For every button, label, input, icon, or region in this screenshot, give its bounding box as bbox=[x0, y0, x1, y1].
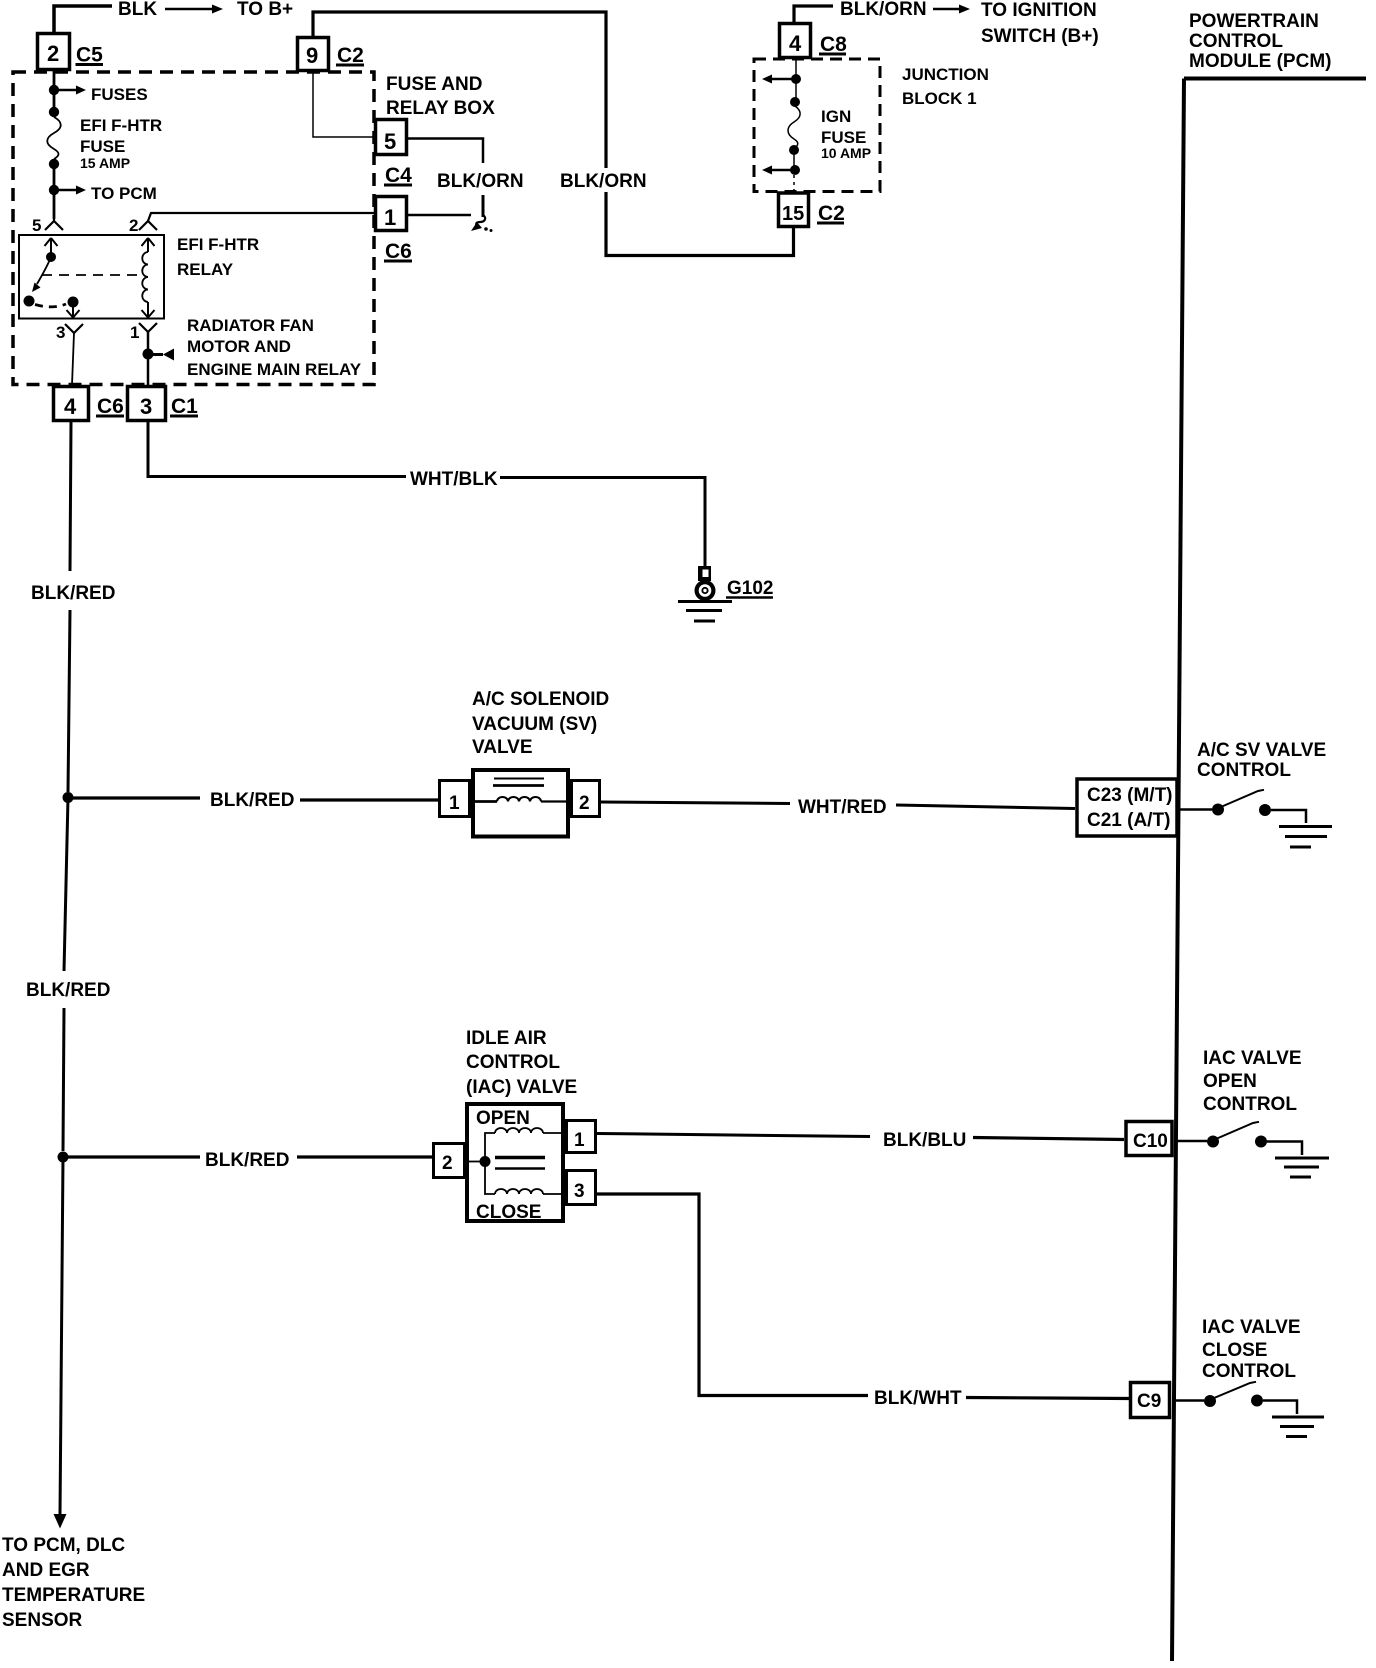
svg-text:MOTOR AND: MOTOR AND bbox=[187, 337, 291, 356]
relay coil down arrow bbox=[142, 302, 155, 318]
svg-text:10 AMP: 10 AMP bbox=[821, 145, 871, 161]
svg-text:IAC VALVE: IAC VALVE bbox=[1203, 1048, 1302, 1069]
svg-text:FUSES: FUSES bbox=[91, 85, 148, 104]
svg-text:POWERTRAIN: POWERTRAIN bbox=[1189, 11, 1319, 32]
connector C6 pin 1 box bbox=[376, 197, 407, 231]
svg-text:WHT/BLK: WHT/BLK bbox=[410, 469, 498, 490]
IAC close coil branch bbox=[485, 1162, 566, 1195]
wire relay pin 2 to connector C6 pin 1 bbox=[148, 213, 374, 221]
ground G102 bolt terminal bbox=[698, 566, 711, 581]
wire BLK/RED segment 3 bbox=[64, 798, 68, 972]
wire BLK/ORN from C2 pin 9 to junction block C2 pin 15 bbox=[313, 12, 794, 256]
label C8 bbox=[819, 33, 847, 56]
wire BLK/RED to AC valve seg2 bbox=[300, 798, 438, 801]
thin wire pin9 to fuse box pin 5 bbox=[313, 71, 374, 137]
PCM boundary vertical line bbox=[1172, 79, 1184, 1662]
svg-text:3: 3 bbox=[56, 323, 65, 342]
svg-text:2: 2 bbox=[442, 1153, 453, 1174]
svg-text:2: 2 bbox=[47, 41, 59, 66]
svg-text:TO PCM, DLC: TO PCM, DLC bbox=[2, 1535, 125, 1556]
relay switch armature bbox=[32, 257, 51, 292]
svg-text:2: 2 bbox=[129, 216, 138, 235]
svg-text:RELAY: RELAY bbox=[177, 260, 234, 279]
IAC internal feed wire bbox=[465, 1161, 480, 1163]
svg-text:WHT/RED: WHT/RED bbox=[798, 797, 887, 818]
junction dot fuse bottom bbox=[49, 159, 59, 169]
ground G102 ring terminal bbox=[695, 580, 716, 601]
ground G102 strokes bbox=[678, 602, 732, 622]
pin 1 connector fork bbox=[139, 323, 157, 332]
svg-text:MODULE (PCM): MODULE (PCM) bbox=[1189, 51, 1331, 72]
junction dot ign bottom bbox=[790, 165, 800, 175]
arrow to ignition switch bbox=[933, 5, 970, 14]
wire junction block internal top bbox=[795, 59, 797, 100]
svg-text:A/C SOLENOID: A/C SOLENOID bbox=[472, 689, 609, 710]
junction dot ign fuse top bbox=[790, 97, 800, 107]
wire WHT/RED seg2 bbox=[896, 805, 1075, 809]
svg-text:JUNCTION: JUNCTION bbox=[902, 65, 989, 84]
IAC pin 1 box bbox=[567, 1121, 596, 1153]
IAC open switch dot left bbox=[1207, 1136, 1219, 1148]
svg-text:BLK/ORN: BLK/ORN bbox=[437, 171, 524, 192]
relay contact dot right bbox=[68, 297, 79, 308]
svg-text:IAC VALVE: IAC VALVE bbox=[1202, 1317, 1301, 1338]
wire BLK/RED to AC valve seg1 bbox=[68, 796, 200, 799]
ground symbol AC bbox=[1279, 827, 1332, 848]
connector C2 pin 15 box bbox=[779, 193, 809, 227]
svg-text:IGN: IGN bbox=[821, 107, 851, 126]
svg-text:BLK/RED: BLK/RED bbox=[31, 583, 115, 604]
pin 3 connector fork bbox=[65, 324, 83, 333]
wire WHT/BLK from C1 pin 3 left segment bbox=[148, 422, 406, 477]
IAC close switch dot left bbox=[1204, 1395, 1216, 1407]
svg-text:OPEN: OPEN bbox=[476, 1108, 530, 1129]
connector C2 pin 9 box bbox=[298, 38, 329, 71]
arrow to B+ bbox=[165, 5, 223, 14]
wire from pin 5 BLK/ORN stub bbox=[407, 139, 483, 164]
AC switch contact dot left bbox=[1212, 804, 1224, 816]
label C4 bbox=[384, 164, 412, 187]
svg-text:BLK/ORN: BLK/ORN bbox=[840, 0, 927, 20]
arrow ign branch bottom bbox=[762, 166, 795, 175]
svg-text:1: 1 bbox=[384, 205, 396, 230]
connector C4 pin 5 box bbox=[376, 120, 407, 155]
svg-text:BLK/RED: BLK/RED bbox=[26, 980, 110, 1001]
svg-text:FUSE: FUSE bbox=[80, 137, 125, 156]
IAC open coil branch bbox=[485, 1128, 566, 1162]
wire break squiggle symbol bbox=[471, 215, 493, 232]
arrow to PCM DLC EGR bbox=[54, 1514, 67, 1529]
relay output down arrow bbox=[67, 302, 80, 318]
fuse IGN FUSE 10 AMP element bbox=[788, 106, 800, 149]
svg-text:C9: C9 bbox=[1137, 1391, 1161, 1412]
relay actuation dashed link bbox=[42, 274, 137, 276]
IAC pin 2 box bbox=[434, 1144, 465, 1178]
svg-text:1: 1 bbox=[574, 1130, 585, 1151]
label C2 of pin 9 bbox=[336, 44, 364, 67]
svg-text:VALVE: VALVE bbox=[472, 737, 533, 758]
svg-text:CONTROL: CONTROL bbox=[466, 1052, 560, 1073]
IAC pin 3 box bbox=[567, 1171, 596, 1205]
svg-text:3: 3 bbox=[140, 394, 152, 419]
svg-text:15: 15 bbox=[782, 203, 804, 225]
AC valve vent lines bbox=[493, 779, 544, 786]
wire BLK/BLU seg2 bbox=[973, 1138, 1124, 1140]
svg-text:1: 1 bbox=[449, 793, 460, 814]
label G102 bbox=[726, 578, 773, 599]
svg-text:TEMPERATURE: TEMPERATURE bbox=[2, 1585, 145, 1606]
connector C9 box bbox=[1131, 1383, 1170, 1418]
wire BLK/RED segment 4 bbox=[63, 1008, 64, 1151]
relay EFI F-HTR box bbox=[19, 235, 164, 319]
svg-text:CLOSE: CLOSE bbox=[476, 1202, 541, 1223]
wire relay pin 3 to C6 pin 4 bbox=[72, 333, 74, 385]
wire BLK/RED segment 2 bbox=[68, 610, 70, 792]
svg-text:BLK/ORN: BLK/ORN bbox=[560, 171, 647, 192]
svg-text:3: 3 bbox=[574, 1181, 585, 1202]
arrow to fuses bbox=[59, 86, 86, 95]
svg-text:ENGINE MAIN RELAY: ENGINE MAIN RELAY bbox=[187, 360, 362, 379]
junction dot PCM tap bbox=[49, 185, 59, 195]
AC valve pin 1 box bbox=[440, 781, 470, 817]
IAC close switch blade bbox=[1214, 1382, 1256, 1398]
svg-text:BLK/RED: BLK/RED bbox=[205, 1150, 289, 1171]
label C6 of pin 1 bbox=[384, 240, 412, 263]
wire WHT/BLK right segment to G102 bbox=[500, 478, 705, 567]
svg-text:1: 1 bbox=[130, 323, 139, 342]
connector C6 pin 4 box bbox=[54, 387, 89, 421]
svg-text:CONTROL: CONTROL bbox=[1197, 760, 1291, 781]
svg-text:SENSOR: SENSOR bbox=[2, 1610, 83, 1631]
AC switch contact dot right bbox=[1259, 804, 1271, 816]
label C2 of pin 15 bbox=[817, 202, 845, 225]
svg-text:C23 (M/T): C23 (M/T) bbox=[1087, 785, 1173, 806]
connector C5 pin 2 box bbox=[38, 34, 70, 70]
wire ign fuse to tap bbox=[793, 150, 795, 170]
svg-text:BLOCK 1: BLOCK 1 bbox=[902, 89, 977, 108]
label C5 bbox=[76, 44, 104, 67]
IAC open switch dot right bbox=[1255, 1136, 1267, 1148]
IAC close switch stub bbox=[1172, 1399, 1204, 1402]
ground symbol IAC close bbox=[1272, 1417, 1324, 1437]
dotted wire to pin 15 bbox=[793, 175, 795, 191]
junction dot ign top bbox=[791, 74, 801, 84]
label C1 bbox=[170, 395, 198, 418]
junction dot AC row bbox=[63, 792, 74, 803]
pin 2 connector fork bbox=[139, 221, 157, 230]
IAC close switch ground wire bbox=[1263, 1401, 1297, 1415]
svg-text:15 AMP: 15 AMP bbox=[80, 155, 130, 171]
svg-text:BLK/BLU: BLK/BLU bbox=[883, 1130, 966, 1151]
IAC plunger bars bbox=[495, 1158, 545, 1169]
svg-text:SWITCH (B+): SWITCH (B+) bbox=[981, 26, 1099, 47]
relay coil bbox=[142, 252, 148, 302]
wire from pin 1 stub bbox=[407, 214, 471, 217]
svg-text:9: 9 bbox=[306, 43, 318, 68]
dashed box junction block 1 bbox=[754, 59, 880, 192]
IAC open switch stub bbox=[1174, 1140, 1207, 1143]
svg-text:FUSE AND: FUSE AND bbox=[386, 74, 482, 95]
svg-text:EFI F-HTR: EFI F-HTR bbox=[80, 116, 162, 135]
svg-text:TO PCM: TO PCM bbox=[91, 184, 157, 203]
svg-text:CONTROL: CONTROL bbox=[1189, 31, 1283, 52]
fuse EFI F-HTR FUSE 15 AMP element bbox=[47, 117, 61, 159]
PCM boundary top line bbox=[1184, 77, 1366, 81]
wire BLK/RED segment 5 bbox=[60, 1157, 63, 1515]
svg-text:2: 2 bbox=[579, 793, 590, 814]
label C6 bbox=[96, 395, 124, 418]
AC solenoid valve body bbox=[473, 770, 568, 837]
relay contact dashed swing arc bbox=[35, 304, 66, 307]
junction dot fuse top bbox=[49, 107, 59, 117]
svg-text:OPEN: OPEN bbox=[1203, 1071, 1257, 1092]
svg-text:A/C SV VALVE: A/C SV VALVE bbox=[1197, 740, 1326, 761]
svg-text:TO IGNITION: TO IGNITION bbox=[981, 0, 1097, 21]
svg-text:CLOSE: CLOSE bbox=[1202, 1340, 1267, 1361]
svg-text:(IAC) VALVE: (IAC) VALVE bbox=[466, 1077, 577, 1098]
pin 5 connector fork bbox=[45, 219, 63, 230]
arrow to PCM bbox=[59, 186, 86, 195]
svg-text:CONTROL: CONTROL bbox=[1203, 1094, 1297, 1115]
AC switch to ground wire bbox=[1271, 810, 1306, 823]
wire C5 to fuse bbox=[53, 71, 56, 117]
IAC open switch ground wire bbox=[1267, 1142, 1302, 1156]
junction dot ign fuse bottom bbox=[789, 145, 799, 155]
wire BLK/ORN ignition feed bbox=[794, 6, 833, 22]
junction dot pin 1 branch bbox=[143, 349, 154, 360]
svg-text:RELAY BOX: RELAY BOX bbox=[386, 98, 495, 119]
svg-text:CONTROL: CONTROL bbox=[1202, 1361, 1296, 1382]
wire BLK/RED to IAC seg1 bbox=[63, 1155, 200, 1158]
svg-text:G102: G102 bbox=[727, 578, 773, 599]
relay contact dot left bbox=[24, 296, 35, 307]
IAC open switch blade bbox=[1217, 1122, 1259, 1139]
arrow ign branch top bbox=[762, 75, 796, 84]
wire BLK/WHT from pin 3 bbox=[597, 1194, 868, 1396]
wire BLK/ORN stub lower segment bbox=[482, 195, 485, 217]
branch to radiator fan motor bbox=[148, 349, 174, 361]
relay switch pivot dot bbox=[46, 252, 56, 262]
relay switch arm up arrow bbox=[45, 238, 58, 253]
AC switch blade bbox=[1222, 790, 1264, 807]
svg-text:C21 (A/T): C21 (A/T) bbox=[1087, 810, 1170, 831]
wire fuse to relay pin 5 bbox=[53, 159, 56, 219]
svg-text:5: 5 bbox=[384, 129, 396, 154]
wire WHT/RED seg1 bbox=[601, 802, 790, 804]
wire BLK/BLU seg1 bbox=[597, 1134, 870, 1137]
wire BLK/WHT seg2 bbox=[966, 1398, 1129, 1399]
connector C23/C21 box bbox=[1077, 779, 1177, 836]
wire BLK from battery to connector C5 pin 2 bbox=[54, 6, 112, 32]
wire relay pin 1 down bbox=[147, 332, 150, 385]
svg-text:VACUUM (SV): VACUUM (SV) bbox=[472, 714, 597, 735]
junction dot fuses tap bbox=[49, 85, 59, 95]
svg-text:5: 5 bbox=[32, 216, 41, 235]
svg-text:C10: C10 bbox=[1133, 1131, 1168, 1152]
dashed box EFI relay assembly bbox=[13, 72, 374, 385]
wire BLK/RED to IAC seg2 bbox=[297, 1155, 432, 1158]
svg-text:EFI F-HTR: EFI F-HTR bbox=[177, 235, 259, 254]
svg-text:BLK/WHT: BLK/WHT bbox=[874, 1388, 962, 1409]
connector C10 box bbox=[1126, 1122, 1172, 1156]
svg-text:4: 4 bbox=[64, 394, 77, 419]
svg-text:IDLE AIR: IDLE AIR bbox=[466, 1028, 547, 1049]
IAC internal junction dot bbox=[480, 1156, 491, 1167]
IAC close switch dot right bbox=[1251, 1395, 1263, 1407]
svg-text:BLK/RED: BLK/RED bbox=[210, 790, 294, 811]
relay coil up arrow bbox=[142, 238, 155, 252]
ground symbol IAC open bbox=[1275, 1158, 1329, 1177]
svg-text:RADIATOR FAN: RADIATOR FAN bbox=[187, 316, 314, 335]
AC valve internal wire and coil bbox=[473, 797, 568, 802]
junction dot IAC row bbox=[58, 1152, 69, 1163]
IAC valve body bbox=[467, 1104, 563, 1221]
wire BLK/RED segment 1 bbox=[70, 422, 71, 571]
connector C1 pin 3 box bbox=[128, 387, 166, 421]
svg-text:TO B+: TO B+ bbox=[237, 0, 293, 20]
connector C8 pin 4 box bbox=[780, 24, 811, 58]
svg-text:BLK: BLK bbox=[118, 0, 157, 20]
svg-text:4: 4 bbox=[789, 31, 802, 56]
AC valve pin 2 box bbox=[572, 781, 600, 817]
svg-text:AND EGR: AND EGR bbox=[2, 1560, 90, 1581]
AC switch wire stub bbox=[1179, 808, 1212, 811]
